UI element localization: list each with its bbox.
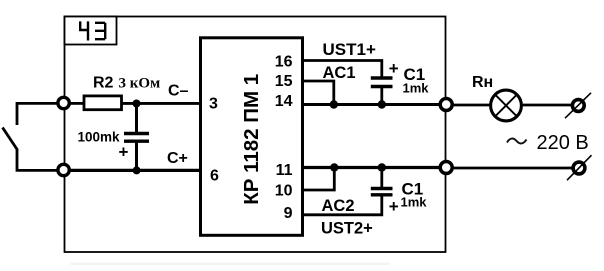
wire pin9 [302, 195, 382, 215]
wire bottom terminal to IC pin6 [69, 169, 201, 172]
resistor R2 [84, 96, 122, 110]
node A junction dot top [133, 100, 141, 108]
label ~ 220 V [507, 139, 527, 144]
svg-text:UST1+: UST1+ [323, 40, 376, 59]
plug connector top [565, 93, 591, 118]
wire pin14 to right terminal [302, 103, 446, 106]
junction dot pin10/pin11 [330, 163, 338, 171]
junction dot pin15/pin14 [330, 100, 338, 108]
svg-text:14: 14 [275, 93, 293, 110]
label box 43 [65, 17, 117, 45]
node: right top terminal [440, 99, 452, 111]
svg-text:1mk: 1mk [401, 195, 428, 210]
svg-text:11: 11 [276, 162, 293, 179]
svg-text:AC2: AC2 [322, 197, 355, 215]
node: left top terminal [58, 97, 69, 108]
svg-text:+: + [389, 197, 399, 216]
svg-text:R2: R2 [93, 75, 114, 92]
op-amp U1 КР1182ПМ1 body [201, 38, 303, 236]
svg-text:100mk: 100mk [78, 130, 121, 145]
enclosure box (device outline) [65, 17, 446, 253]
svg-text:10: 10 [275, 183, 293, 200]
svg-text:220 В: 220 В [537, 132, 589, 154]
plug connector bottom [567, 155, 592, 180]
svg-text:Rн: Rн [472, 74, 493, 91]
svg-text:3: 3 [209, 96, 218, 113]
svg-text:3 кОм: 3 кОм [119, 76, 161, 92]
node: left bottom terminal [58, 164, 69, 175]
wire lamp to plug [521, 104, 571, 107]
wire terminal to lamp [452, 104, 491, 107]
node: right bottom terminal [440, 162, 452, 174]
svg-text:15: 15 [275, 73, 293, 90]
scan smudge bottom [70, 263, 390, 266]
wire pin10 [302, 168, 334, 191]
capacitor C1 top [371, 78, 393, 105]
switch SA1 [3, 103, 65, 170]
svg-text:+: + [119, 143, 129, 162]
wire bottom terminal to plug [452, 167, 572, 170]
lamp Rн [491, 90, 522, 121]
svg-text:C–: C– [168, 83, 189, 100]
svg-text:UST2+: UST2+ [321, 220, 373, 238]
capacitor C1 bottom [371, 168, 393, 195]
svg-text:6: 6 [210, 168, 219, 185]
svg-text:+: + [389, 59, 399, 78]
junction dot C1/pin14 [378, 100, 386, 108]
svg-text:9: 9 [284, 205, 293, 222]
junction dot C1-bottom/pin11 [378, 163, 386, 171]
svg-text:C+: C+ [167, 150, 188, 167]
node B junction dot bottom [133, 166, 141, 174]
wire terminal to resistor [69, 102, 84, 105]
svg-text:AC1: AC1 [323, 64, 356, 82]
wire resistor to IC pin3 [122, 102, 202, 105]
svg-text:КР 1182 ПМ 1: КР 1182 ПМ 1 [240, 74, 263, 205]
wire pin16 [302, 61, 382, 79]
wire pin15 [302, 81, 334, 105]
capacitor 100mk (polarized) [124, 103, 149, 170]
svg-text:1mk: 1mk [403, 81, 430, 96]
svg-text:16: 16 [275, 54, 293, 71]
wire pin11 to right bottom terminal [302, 166, 446, 169]
label 43 (stylized digits) [79, 21, 105, 40]
